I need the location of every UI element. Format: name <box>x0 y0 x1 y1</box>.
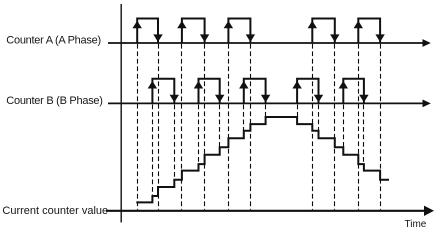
dashed projection line, counter A pulse 5 rising edge <box>358 44 360 210</box>
counter A pulse 1 with count-up edge arrows <box>133 19 163 44</box>
dashed projection line, counter A pulse 4 rising edge <box>312 44 314 210</box>
counter A pulse 2 with count-up edge arrows <box>177 19 209 44</box>
label: Current counter value <box>2 205 108 217</box>
dashed projection line, counter A pulse 1 rising edge <box>137 44 139 210</box>
svg-text:Time: Time <box>405 219 427 230</box>
vertical axis <box>120 4 122 223</box>
dashed projection line, counter B pulse 2 falling edge <box>219 105 221 147</box>
counter B pulse 3 with count edge arrows <box>239 79 270 104</box>
dashed projection line, counter A pulse 1 falling edge <box>158 44 160 210</box>
counter A pulse 5 with count-up edge arrows <box>354 19 385 44</box>
counter A pulse 4 with count-up edge arrows <box>308 19 340 44</box>
dashed projection line, counter B pulse 4 rising edge <box>297 105 299 117</box>
counter B (B phase) signal baseline with right arrow <box>108 100 431 108</box>
label: Counter A (A Phase) <box>6 35 101 47</box>
dashed projection line, counter B pulse 3 rising edge <box>243 105 245 131</box>
svg-text:Counter B (B Phase): Counter B (B Phase) <box>6 95 102 107</box>
dashed projection line, counter B pulse 1 rising edge <box>152 105 154 196</box>
counter B pulse 5 with count edge arrows <box>339 79 369 104</box>
counter B pulse 1 with count edge arrows <box>148 79 179 104</box>
dashed projection line, counter B pulse 1 falling edge <box>174 105 176 180</box>
dashed projection line, counter A pulse 3 rising edge <box>228 44 230 210</box>
dashed projection line, counter A pulse 2 rising edge <box>181 44 183 210</box>
counter B pulse 2 with count edge arrows <box>194 79 225 104</box>
counter A (A phase) signal baseline with right arrow <box>108 39 431 47</box>
counter A pulse 3 with count-up edge arrows <box>224 19 255 44</box>
dashed projection line, counter B pulse 4 falling edge <box>318 105 320 131</box>
dashed projection line, counter B pulse 5 falling edge <box>363 105 365 164</box>
svg-text:Current counter value: Current counter value <box>2 205 108 217</box>
dashed projection line, counter B pulse 2 rising edge <box>198 105 200 164</box>
dashed projection line, counter A pulse 4 falling edge <box>334 44 336 210</box>
counter B pulse 4 with count edge arrows <box>292 79 323 104</box>
svg-text:Counter A (A Phase): Counter A (A Phase) <box>6 35 101 47</box>
dashed projection line, counter A pulse 3 falling edge <box>250 44 252 210</box>
current counter value staircase waveform <box>136 117 389 202</box>
dashed projection line, counter B pulse 3 falling edge <box>265 105 267 117</box>
dashed projection line, counter A pulse 5 falling edge <box>380 44 382 210</box>
dashed projection line, counter B pulse 5 rising edge <box>343 105 345 147</box>
dashed projection line, counter A pulse 2 falling edge <box>204 44 206 210</box>
time axis (current counter value baseline) with right arrow <box>106 206 434 216</box>
label: Counter B (B Phase) <box>6 95 102 107</box>
label: Time <box>405 219 427 230</box>
